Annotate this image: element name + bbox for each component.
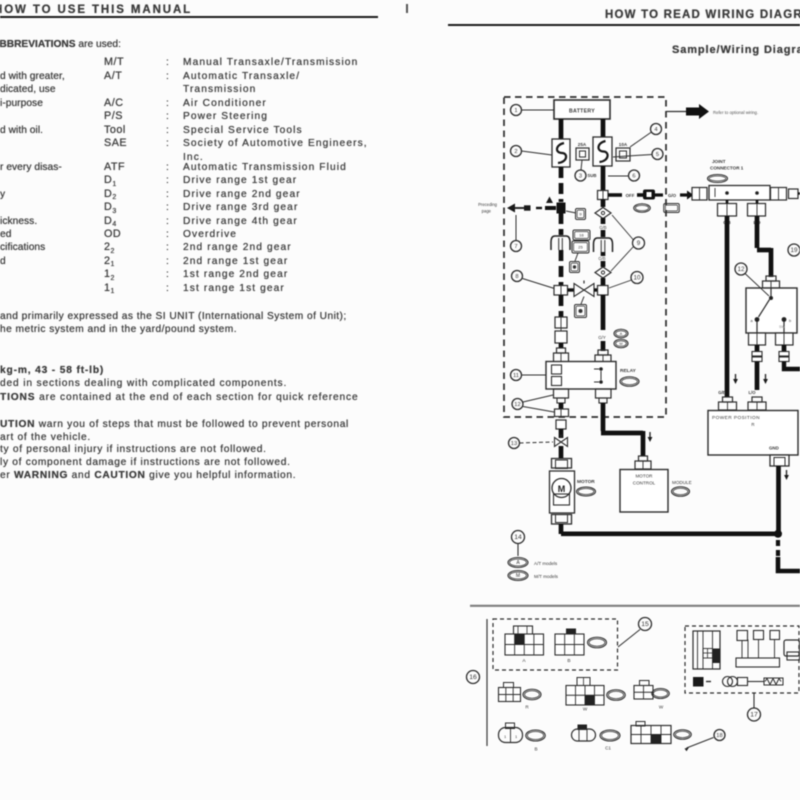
callout 12a — [512, 395, 554, 412]
left heading — [0, 4, 192, 16]
svg-text:CONNECTOR 1: CONNECTOR 1 — [710, 166, 744, 171]
wire mcm 2 — [601, 431, 643, 436]
svg-text:18: 18 — [716, 733, 722, 739]
svg-text:G/B: G/B — [718, 390, 725, 395]
svg-text:C1: C1 — [605, 746, 611, 751]
svg-text:16: 16 — [469, 674, 477, 681]
callout 11 — [511, 370, 547, 381]
wire right seg9 — [601, 341, 606, 351]
svg-text:9: 9 — [579, 212, 582, 217]
svg-text:b: b — [789, 319, 791, 323]
callout 16 — [467, 671, 480, 684]
callout 4 — [630, 124, 662, 148]
wire left cont2 — [559, 250, 564, 285]
fusible link FL1 — [552, 139, 570, 167]
svg-text:1: 1 — [504, 734, 507, 739]
svg-text:7: 7 — [514, 244, 517, 250]
svg-text:G/Y: G/Y — [598, 335, 606, 340]
callout 18 — [685, 730, 726, 752]
wire left cont — [559, 213, 564, 235]
joint drop connector left — [718, 200, 737, 216]
wire right seg6 — [601, 261, 606, 267]
callout 12 — [735, 263, 769, 296]
wire OFF row — [608, 193, 622, 197]
svg-text:25: 25 — [578, 245, 583, 250]
arrow gb — [733, 374, 738, 384]
connector sq right row2 — [598, 286, 609, 296]
svg-text:16: 16 — [579, 233, 584, 238]
wire drop right 1 — [755, 216, 760, 248]
svg-text:SW: SW — [779, 325, 785, 329]
svg-text:SUB: SUB — [587, 173, 596, 178]
tag small — [570, 253, 580, 273]
svg-text:3: 3 — [579, 173, 582, 179]
svg-text:G/B: G/B — [598, 256, 605, 261]
tag 9a — [566, 209, 586, 220]
battery B1 — [554, 100, 610, 119]
svg-text:MODULE: MODULE — [672, 480, 692, 485]
wire motor down — [559, 524, 564, 534]
connector sq right row1 — [598, 191, 609, 200]
fuse 10A — [616, 142, 630, 161]
arrow gnd — [784, 470, 789, 480]
legend oval A — [508, 558, 528, 568]
callout 8 — [512, 271, 557, 290]
connector grid A — [505, 626, 544, 664]
bottom dashed box right — [685, 626, 799, 693]
oval tag AB — [588, 637, 607, 648]
power box connector left — [719, 397, 737, 410]
tag 25 — [572, 241, 589, 253]
oval tag B2 — [526, 730, 546, 741]
gnd wire dashdot — [776, 540, 780, 557]
power position box U2 — [708, 411, 798, 456]
connector W — [566, 678, 604, 712]
connector R — [499, 683, 530, 710]
wire OFF row2 — [637, 193, 643, 197]
fusible link FL2 — [593, 137, 612, 166]
oval tag relay — [620, 377, 639, 387]
wire left seg3 — [559, 295, 564, 317]
svg-text:M: M — [558, 484, 566, 494]
relay top connector right — [595, 350, 611, 363]
callout 13 — [509, 438, 554, 449]
relay bottom connector left — [554, 389, 569, 403]
relay schematic squares — [736, 631, 780, 668]
page fold mark — [406, 4, 408, 13]
svg-text:13: 13 — [511, 441, 517, 447]
motor control module box — [620, 470, 668, 513]
relay side view — [693, 631, 720, 669]
svg-text:15: 15 — [641, 621, 649, 628]
relay top connector left — [554, 348, 569, 362]
oval tag M — [614, 339, 628, 348]
arrow mcm — [648, 432, 653, 442]
callout 14 — [512, 531, 525, 557]
switch bottom connector left — [749, 333, 766, 345]
abbreviations intro — [0, 39, 121, 50]
svg-text:R: R — [751, 422, 754, 427]
joint right end connector — [771, 188, 787, 201]
fuse 25A — [576, 142, 589, 160]
connector oval C — [572, 725, 612, 751]
joint connector J1 box — [709, 186, 770, 201]
connector diamond 2 — [595, 267, 611, 278]
right heading — [605, 9, 800, 21]
wire right seg3 — [601, 218, 606, 224]
svg-text:JOINT: JOINT — [712, 159, 726, 164]
connector blob — [643, 190, 655, 200]
wire drop right 3 — [769, 248, 774, 277]
svg-text:M/T models: M/T models — [534, 574, 559, 579]
bracket line — [486, 619, 488, 746]
svg-text:4: 4 — [654, 127, 658, 133]
svg-text:10A: 10A — [619, 142, 628, 147]
wire sw left 1 — [755, 345, 760, 351]
svg-text:OFF: OFF — [626, 193, 635, 198]
separator rule — [470, 605, 800, 607]
wire right seg2 — [601, 199, 606, 207]
motor bottom connector — [552, 515, 572, 525]
joint right stub — [789, 189, 800, 199]
svg-text:14: 14 — [514, 534, 522, 541]
motor M1 body — [550, 471, 575, 513]
wire left main (dashed thick) — [559, 167, 564, 202]
legend oval M — [508, 571, 528, 581]
wire right seg4 — [601, 230, 606, 237]
sample subtitle — [672, 44, 800, 56]
switch bottom connector right — [776, 333, 794, 345]
wire mcm 1 — [601, 403, 606, 431]
oval tag D — [674, 730, 692, 740]
svg-text:M: M — [620, 342, 623, 346]
ground bus wire — [561, 531, 778, 536]
callout 19 — [788, 244, 800, 256]
svg-text:1: 1 — [514, 108, 517, 114]
callout 6 — [608, 170, 640, 181]
junction blob — [557, 203, 566, 214]
joint drop connector right — [748, 200, 766, 216]
svg-text:CONTROL: CONTROL — [633, 481, 656, 486]
wire row2 b — [594, 288, 598, 291]
connector oval B — [499, 723, 538, 752]
callout 10 — [609, 272, 643, 289]
arrow lo — [763, 374, 768, 384]
wire OFF row3 — [655, 193, 663, 196]
connector bowtie left — [555, 435, 568, 447]
connector pair left — [555, 317, 567, 343]
svg-text:GND: GND — [769, 446, 779, 451]
oval tag joint — [708, 175, 728, 183]
oval tag mcm — [672, 487, 690, 497]
oval tag A — [614, 329, 628, 338]
mcm top connector — [635, 456, 651, 469]
svg-text:M: M — [516, 573, 520, 579]
power box connector right — [748, 397, 766, 410]
callout 7 — [511, 215, 522, 252]
connector wide left — [555, 409, 569, 417]
rounded box right partial — [784, 640, 800, 660]
connector sq left row2 — [554, 286, 568, 296]
connector cup left — [551, 236, 570, 250]
svg-text:BATTERY: BATTERY — [569, 109, 595, 115]
wire battery left down — [559, 119, 564, 139]
connector pair sw left — [752, 352, 762, 362]
svg-text:5: 5 — [656, 152, 659, 158]
wire right seg8 — [601, 295, 606, 330]
connector bowtie row2 — [574, 281, 594, 297]
svg-text:W: W — [659, 705, 664, 710]
wire right seg5 — [601, 252, 606, 256]
connector cup right — [594, 238, 613, 252]
svg-text:11: 11 — [513, 373, 519, 379]
wire left seg5 — [559, 403, 564, 409]
oval tag W — [607, 690, 626, 701]
left heading rule — [0, 16, 378, 19]
callout 9 — [611, 215, 645, 271]
switch top connector — [763, 276, 780, 288]
callout 1 — [511, 105, 555, 116]
connector V — [634, 681, 664, 710]
wire left seg6 — [559, 429, 564, 438]
svg-text:A/T models: A/T models — [534, 561, 558, 566]
callout 15 — [618, 618, 652, 648]
connector pair sw right — [779, 352, 789, 362]
motor top connector — [552, 459, 572, 469]
wire gnd down — [776, 466, 781, 532]
wire right seg7 — [601, 278, 606, 286]
wire battery right down — [601, 119, 606, 137]
dashed boundary box — [504, 97, 666, 417]
relay box K1 — [546, 362, 616, 390]
svg-text:6: 6 — [632, 173, 635, 179]
oval tag E1 — [634, 204, 651, 213]
svg-text:page: page — [482, 209, 492, 214]
svg-text:17: 17 — [750, 711, 758, 718]
tag row2 below — [575, 297, 587, 318]
svg-text:G/O: G/O — [668, 193, 677, 198]
callout 3 — [575, 160, 586, 181]
wire left seg4 — [559, 343, 564, 348]
svg-text:A: A — [522, 658, 526, 664]
oval tag motor — [577, 487, 596, 496]
wire sw right 1 — [782, 345, 787, 351]
svg-text:12: 12 — [514, 402, 520, 408]
svg-text:R: R — [525, 705, 529, 710]
junction dot — [774, 530, 782, 538]
svg-text:19: 19 — [790, 247, 798, 254]
callout 17 — [748, 693, 761, 721]
svg-text:10: 10 — [633, 274, 641, 281]
gnd wire L — [778, 557, 800, 571]
svg-text:G/B: G/B — [599, 225, 606, 230]
connector grid D — [631, 726, 671, 744]
svg-text:W: W — [583, 707, 588, 712]
wire left seg7 — [559, 446, 564, 458]
svg-text:8: 8 — [515, 274, 518, 280]
svg-text:Refer to optional wiring.: Refer to optional wiring. — [713, 110, 758, 115]
wire OFF row4 + arrow — [680, 191, 694, 200]
svg-text:MOTOR: MOTOR — [635, 474, 653, 479]
svg-text:L/O: L/O — [749, 390, 757, 395]
svg-text:9: 9 — [637, 240, 641, 247]
connector sq left2 — [556, 420, 566, 429]
right heading rule — [448, 24, 800, 26]
svg-text:B: B — [534, 747, 537, 752]
svg-text:POWER POSITION: POWER POSITION — [712, 415, 760, 421]
relay bottom connector right — [596, 389, 612, 403]
wire right main — [601, 166, 606, 190]
relay contacts — [552, 365, 603, 386]
diode row — [693, 677, 783, 687]
callout 2 — [511, 146, 553, 157]
switch box S1 — [746, 288, 797, 333]
svg-text:RELAY: RELAY — [620, 368, 637, 374]
svg-text:Preceding: Preceding — [478, 202, 498, 207]
tag 16 — [573, 230, 590, 240]
svg-text:12: 12 — [737, 266, 745, 273]
wire mcm 3 — [641, 431, 646, 456]
svg-text:25A: 25A — [578, 142, 587, 147]
wire row2 a — [568, 288, 575, 291]
svg-text:A: A — [516, 560, 520, 566]
wire drop left (G/B) — [725, 216, 730, 397]
connector diamond 1 — [595, 208, 611, 219]
gnd connector — [770, 455, 789, 466]
svg-text:MOTOR: MOTOR — [577, 479, 595, 485]
svg-text:2: 2 — [514, 149, 517, 155]
svg-text:1: 1 — [515, 734, 518, 739]
preceding page arrow — [507, 197, 556, 213]
callout 5 — [613, 149, 663, 160]
joint left end connector — [692, 188, 707, 201]
wire drop right 2 — [757, 248, 771, 253]
svg-text:A: A — [620, 332, 623, 336]
tag E2 — [664, 204, 680, 213]
wire sw right L — [784, 362, 800, 370]
wire sw left 2 — [755, 362, 760, 391]
svg-text:B: B — [567, 658, 570, 664]
bottom dashed box left — [493, 619, 618, 670]
oval tag R — [523, 689, 541, 700]
connector grid B — [555, 629, 584, 665]
oval tag V — [652, 689, 670, 699]
oval tag C — [600, 730, 620, 741]
refer arrow — [666, 104, 709, 119]
